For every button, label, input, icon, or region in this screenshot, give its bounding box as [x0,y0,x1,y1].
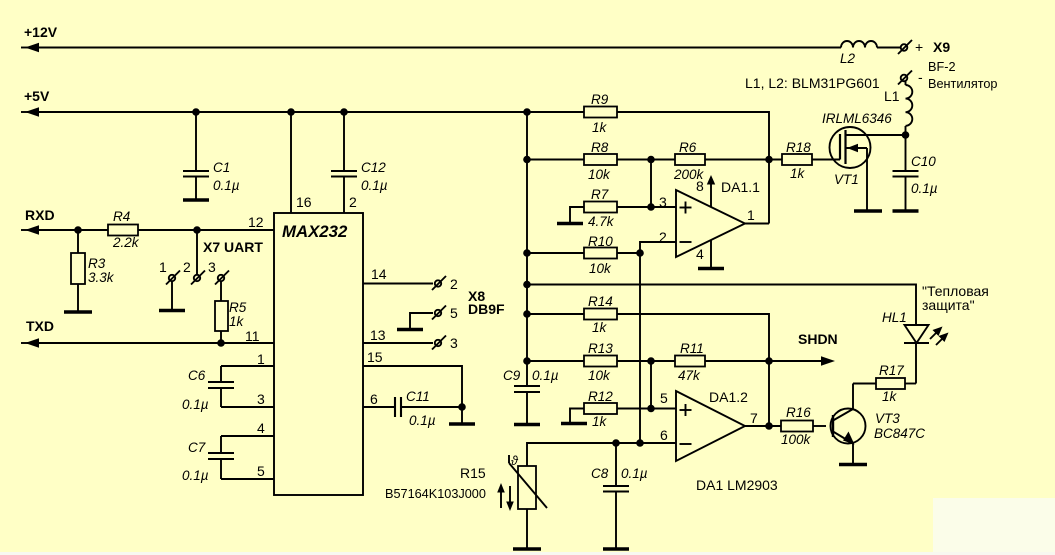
svg-text:0.1µ: 0.1µ [213,178,240,193]
svg-text:1k: 1k [229,314,245,329]
svg-text:C1: C1 [213,160,230,175]
svg-text:R11: R11 [680,341,704,356]
wire TXD line [27,342,274,344]
svg-text:R10: R10 [588,234,613,249]
transistor VT3 [831,384,866,464]
pin 4 label [257,420,265,436]
resistor R4 [108,225,138,236]
resistor R12 [584,403,617,414]
pin 3 label [257,391,265,407]
node drain junction [902,131,910,139]
svg-text:C9: C9 [503,368,521,383]
label IRLML6346 [822,111,892,126]
inductor L2 [841,41,900,48]
label VT1 [834,172,859,187]
label R16 [781,405,812,447]
svg-text:12: 12 [248,214,264,230]
svg-text:1k: 1k [592,414,608,429]
node SHDN label [798,331,838,347]
svg-text:47k: 47k [678,368,701,383]
label R17 [879,363,904,404]
transistor VT1 MOSFET [812,127,906,210]
connector X8 pin3 [432,336,446,350]
label theta thermistor [511,454,519,468]
node feedback junction [765,156,773,164]
node bus R10 junction [523,249,531,257]
node R8 R6 junction [647,156,655,164]
svg-text:10k: 10k [588,167,611,182]
label C1 [213,160,240,193]
pin DA1.2 5 label [660,390,668,406]
svg-text:100k: 100k [781,432,812,447]
label R13 [588,341,613,383]
pin 1 label [257,351,265,367]
svg-text:C8: C8 [591,466,609,481]
label R3 [88,256,115,285]
svg-text:5: 5 [660,390,668,406]
pin DA1.2 6 label [660,427,668,443]
pin DA1.1 4 label [696,246,704,262]
resistor R17 [853,378,916,389]
resistor R18 [782,154,812,165]
node bus R13 junction [523,357,531,365]
svg-text:0.1µ: 0.1µ [409,413,436,428]
node +12V label [24,24,58,40]
svg-text:+12V: +12V [24,24,58,40]
label R4 [112,209,140,250]
label R8 [588,140,611,182]
ground DA1.1 pin4 [698,267,724,271]
op-amp DA1.2 [676,391,745,461]
node R7 plus junction [647,203,655,211]
resistor R16 [781,421,826,432]
resistor R6 [675,154,705,165]
label MAX232 [282,222,348,241]
wire DA1.2 pin6 row [527,443,676,466]
node RXD label [25,207,55,223]
node bus top junction [523,108,531,116]
capacitor C11 [363,397,462,417]
node C12 junction [340,108,348,116]
connector X9 pin - [898,71,912,85]
wire DA1.1 pin4 ground [710,241,712,268]
wire DA1.1 output [745,223,769,225]
wire X8 pin5 to ground [410,313,433,328]
capacitor C8 [603,443,629,548]
node C11 junction [458,403,466,423]
label Ventilator [928,77,997,91]
svg-text:R9: R9 [591,92,609,107]
label R18 [786,140,811,181]
svg-text:BC847C: BC847C [874,426,925,441]
node TXD label [26,318,54,334]
wire R14 row [527,314,769,427]
label R10 [588,234,613,276]
connector X8 pin2 [432,276,446,290]
label C9 [503,368,559,383]
svg-text:1k: 1k [592,320,608,335]
node R10 minus junction [636,249,644,257]
node X9 label [933,39,950,55]
svg-text:VT3: VT3 [875,411,900,426]
resistor R11 [675,356,705,367]
svg-text:1: 1 [159,259,167,275]
label L1 [884,88,900,104]
svg-text:+: + [915,39,923,55]
resistor R3 [71,230,85,311]
svg-text:C12: C12 [361,160,386,175]
ground thermistor [513,547,541,551]
node output R16 junction [765,422,773,430]
svg-text:R15: R15 [460,465,486,481]
pin X8 2 label [450,276,458,292]
node SHDN junction [765,357,773,365]
node minus2 junction [636,439,644,447]
svg-text:4: 4 [696,246,704,262]
resistor R8 [584,154,617,165]
ground C10 [893,209,919,213]
connector X7 pin3 [215,271,229,285]
label DA1 LM2903 [696,477,778,493]
svg-text:6: 6 [370,391,378,407]
label R6 [673,140,705,182]
svg-text:X9: X9 [933,39,950,55]
wire R12 row [570,409,676,423]
inductor L1 [906,82,913,136]
wire pin15 [363,366,462,407]
svg-text:3: 3 [208,259,216,275]
white strip bottom [0,552,1055,555]
svg-text:TXD: TXD [26,318,54,334]
svg-text:R12: R12 [588,389,613,404]
wire pin16 [290,112,292,213]
svg-text:2: 2 [349,194,357,210]
pin DA1.1 1 label [747,207,755,223]
wire X7 pin2 [196,230,198,275]
node R3 junction [74,226,82,234]
label C6 [182,368,209,412]
svg-text:R5: R5 [229,300,247,315]
svg-text:0.1µ: 0.1µ [361,178,388,193]
svg-text:R4: R4 [113,209,130,224]
connector X9 pin + [898,40,912,54]
node +12V arrow [21,43,39,52]
svg-text:1: 1 [257,351,265,367]
pin 14 label [371,266,387,282]
svg-text:MAX232: MAX232 [282,222,348,241]
node pin16 junction [287,108,295,116]
node bus thermal junction [523,281,531,289]
label R11 [678,341,704,383]
ground VT3 emitter [839,463,867,467]
ground R3 [64,310,92,314]
node +5V label [24,88,50,104]
pin 15 label [367,349,383,365]
wire DA1.2 output [745,425,781,427]
svg-text:C10: C10 [911,154,936,169]
svg-text:16: 16 [296,194,312,210]
svg-text:DB9F: DB9F [468,301,505,317]
op-amp DA1.1 [676,190,745,257]
svg-text:DA1.2: DA1.2 [709,389,748,405]
node R12 plus junction [647,405,655,413]
svg-text:0.1µ: 0.1µ [621,466,648,481]
pin 13 label [370,327,386,343]
wire +5V rail [27,112,769,224]
node +5V arrow [21,107,39,116]
label thermal protection [922,283,989,313]
pin 5 label [257,463,265,479]
svg-text:ϑ: ϑ [511,454,519,468]
node bus R8 junction [523,156,531,164]
svg-text:B57164K103J000: B57164K103J000 [385,487,486,501]
node HL1 light arrows [930,327,949,346]
svg-text:3.3k: 3.3k [88,270,115,285]
svg-text:R16: R16 [786,405,811,420]
ground VT1 source [854,209,882,213]
capacitor C1 [183,112,209,199]
label L2 [840,51,856,66]
white patch bottom right [933,498,1055,555]
label R12 [588,389,613,429]
svg-text:0.1µ: 0.1µ [182,397,209,412]
svg-text:10k: 10k [589,261,612,276]
capacitor C12 [331,112,357,213]
label C8 [591,466,648,481]
svg-text:2: 2 [450,276,458,292]
node TXD arrow [21,338,39,347]
ground X7 pin1 [159,309,185,313]
wire R13 to plus2 vertical [650,361,652,409]
capacitor C10 [893,171,919,210]
label HL1 [882,310,907,325]
pin DA1.2 7 label [750,410,758,426]
svg-text:1k: 1k [592,120,608,135]
wire R6in to plus input [650,160,652,208]
node X8 label [468,288,505,317]
label C7 [182,440,209,483]
wire RXD line [27,229,274,231]
pin 16 label [296,194,312,210]
svg-text:1: 1 [747,207,755,223]
label C12 [361,160,388,193]
resistor R5 [215,281,228,343]
svg-text:HL1: HL1 [882,310,907,325]
node SHDN arrow [769,356,835,365]
pin 2 label [349,194,357,210]
svg-text:2.2k: 2.2k [112,235,140,250]
thermistor R15 [509,455,547,548]
connector X8 pin5 [432,306,446,320]
svg-text:1k: 1k [790,166,806,181]
connector X7 pin2 [191,271,205,285]
svg-text:14: 14 [371,266,387,282]
wire R7 row [570,207,676,222]
svg-text:8: 8 [696,178,704,194]
label C11 [406,389,436,428]
wire +12V rail [27,47,841,49]
capacitor C6 [208,366,274,407]
svg-text:3: 3 [257,391,265,407]
node C1 junction [192,108,200,116]
pin DA1.1 8 label [696,178,704,194]
svg-text:R13: R13 [588,341,613,356]
svg-text:BF-2: BF-2 [928,60,956,74]
svg-text:L2: L2 [840,51,856,66]
svg-text:7: 7 [750,410,758,426]
svg-text:15: 15 [367,349,383,365]
svg-text:L1, L2: BLM31PG601: L1, L2: BLM31PG601 [745,75,880,91]
wire R10 row [527,252,640,254]
node R5 TXD junction [217,339,225,347]
svg-text:RXD: RXD [25,207,55,223]
capacitor C7 [208,436,274,479]
label R15 [385,465,486,501]
svg-text:R14: R14 [588,294,613,309]
svg-text:X7 UART: X7 UART [203,239,263,255]
label DA1.1 [721,179,760,195]
wire pin14 [363,283,433,285]
label BF-2 [928,60,956,74]
pin 11 label [245,328,260,344]
label L1 L2 BLM31PG601 [745,75,880,91]
pin 12 label [248,214,264,230]
ground C8 [603,547,629,551]
svg-text:SHDN: SHDN [798,331,838,347]
pin DA1.1 3 label [659,194,667,210]
wire LED branch down [915,343,917,384]
resistor R7 [584,202,617,213]
wire DA1.1 pin8 power [707,175,715,207]
svg-text:2: 2 [183,259,191,275]
connector X7 pin1 [166,271,180,310]
svg-text:1k: 1k [882,389,898,404]
wire +5V bus vertical [526,112,528,386]
svg-text:0.1µ: 0.1µ [182,468,209,483]
svg-text:5: 5 [450,305,458,321]
svg-text:2: 2 [659,229,667,245]
svg-text:+5V: +5V [24,88,50,104]
pin X7 1 2 3 labels [159,259,216,275]
svg-text:10k: 10k [588,368,611,383]
svg-text:5: 5 [257,463,265,479]
node X7 UART label [203,239,263,255]
label C10 [911,154,938,196]
wire R13 R11 row [527,360,769,362]
node C8 junction [612,439,620,447]
label R5 [229,300,247,329]
svg-text:R17: R17 [879,363,904,378]
pin X8 3 label [450,335,458,351]
svg-text:DA1 LM2903: DA1 LM2903 [696,477,778,493]
pin DA1.1 2 label [659,229,667,245]
node thermistor arrows [497,483,514,511]
label DA1.2 [709,389,748,405]
ground X8 pin5 [397,328,423,332]
wire thermal long line [527,285,916,326]
ground R7 [557,222,583,226]
svg-text:R3: R3 [88,256,106,271]
svg-text:DA1.1: DA1.1 [721,179,760,195]
svg-text:R7: R7 [591,187,609,202]
ground C1 [183,198,209,202]
ground C11 [449,422,475,426]
resistor R10 [584,248,617,259]
label R7 [588,187,615,229]
svg-text:11: 11 [245,328,260,344]
svg-text:R6: R6 [679,140,697,155]
svg-text:R18: R18 [786,140,811,155]
LED HL1 [904,325,929,343]
svg-text:-: - [918,69,923,85]
svg-text:13: 13 [370,327,386,343]
pin X8 5 label [450,305,458,321]
resistor R14 [584,309,617,320]
svg-text:4: 4 [257,420,265,436]
ground R12 [561,422,587,426]
svg-text:0.1µ: 0.1µ [532,368,559,383]
svg-text:C7: C7 [188,440,206,455]
wire row R8 R6 R18 [527,159,838,161]
wire minus input stub [640,242,676,443]
node X7 pin2 junction [193,226,201,234]
node bus R14 junction [523,310,531,318]
resistor R13 [584,356,617,367]
svg-text:3: 3 [450,335,458,351]
wire drain node to C10 [905,135,907,171]
wire pin13 [363,342,433,344]
svg-text:Вентилятор: Вентилятор [928,77,997,91]
node X9 plus label [915,39,923,55]
ground C9 [514,423,540,427]
label VT3 [874,411,925,441]
capacitor C9 [514,386,540,423]
svg-text:6: 6 [660,427,668,443]
svg-text:защита": защита" [922,297,975,313]
node X9 minus label [918,69,923,85]
label R14 [588,294,613,335]
svg-text:L1: L1 [884,88,900,104]
svg-text:R8: R8 [591,140,609,155]
svg-text:C6: C6 [188,368,206,383]
op-amp comparator U MAX232 box [274,213,363,495]
svg-text:3: 3 [659,194,667,210]
svg-text:0.1µ: 0.1µ [911,181,938,196]
label R9 [591,92,609,135]
resistor R9 [584,107,617,118]
svg-text:4.7k: 4.7k [588,214,615,229]
svg-text:C11: C11 [406,389,430,404]
pin 6 label [370,391,378,407]
svg-text:VT1: VT1 [834,172,859,187]
node RXD arrow [21,225,39,234]
svg-text:IRLML6346: IRLML6346 [822,111,892,126]
node R13 R11 junction [647,357,655,365]
